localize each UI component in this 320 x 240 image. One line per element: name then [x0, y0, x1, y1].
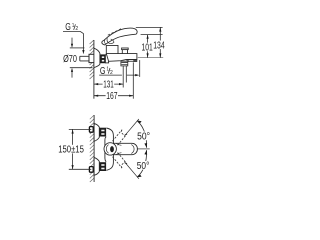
Ø70 lower arrow — [71, 71, 73, 77]
lower hex union nut (plan view, dark) — [100, 162, 107, 171]
lever handle (plan view, solid) — [109, 143, 138, 154]
dimension 150±15 (vertical line with arrows) — [72, 129, 74, 169]
G 1/2 label (spout outlet) — [100, 66, 113, 77]
lower pipe elbow behind wall — [89, 167, 93, 173]
hex union nut (side view, dark) — [100, 54, 105, 63]
G 1/2 leader with arrow to outlet projection line — [99, 74, 136, 76]
lever open position dashed line — [108, 28, 122, 35]
50° label (lower) — [136, 161, 150, 170]
cartridge housing block — [106, 45, 118, 53]
lever front cap curls — [104, 38, 114, 44]
svg-text:50°: 50° — [137, 132, 150, 143]
centerline baseline for height dimensions — [138, 57, 163, 59]
svg-text:101: 101 — [142, 43, 154, 54]
dimension 167 (horizontal) — [94, 95, 133, 97]
spout outlet projection line — [139, 60, 141, 77]
wall line (upper view), extended down as extension line for 131/167 — [93, 40, 95, 99]
upper escutcheon cone (plan view) — [94, 123, 99, 141]
wall hatching (lower view) — [90, 115, 94, 182]
dimension 134 (vertical) — [159, 27, 161, 57]
upper hex union nut (plan view, dark) — [100, 128, 107, 137]
svg-text:131: 131 — [103, 80, 114, 91]
Ø70 upper extension line — [70, 47, 85, 49]
diverter knob on body top — [122, 50, 127, 54]
shower hose nipple below body — [121, 61, 128, 66]
dimension 150±15 extension lines — [69, 128, 92, 130]
dimension 131 (horizontal) — [94, 83, 123, 85]
dome inner crescent — [106, 145, 108, 154]
134 top extension line — [136, 26, 163, 28]
extension line from spout tip for 167 — [132, 62, 134, 98]
aerator band under spout end — [127, 60, 137, 62]
50° arc (lower) — [137, 150, 146, 177]
faucet body (side view) — [106, 54, 137, 62]
50° leg line (lower) — [124, 162, 139, 179]
101 top extension line — [141, 34, 163, 36]
50° arc (upper) — [137, 121, 146, 148]
faucet body column (plan view) — [105, 128, 114, 170]
wall hatching (upper view) — [90, 40, 94, 79]
supply pipe behind wall — [80, 56, 89, 61]
svg-text:50°: 50° — [137, 161, 150, 172]
escutcheon cone (side view) — [94, 48, 100, 67]
upper pipe elbow behind wall — [89, 127, 93, 133]
svg-text:150±15: 150±15 — [58, 145, 84, 156]
svg-text:134: 134 — [153, 41, 165, 52]
dashed lever swung down 50° — [113, 153, 128, 169]
Ø70 upper arrow — [71, 38, 73, 45]
body flange ring — [105, 55, 108, 63]
wall line (lower view) — [93, 115, 95, 182]
svg-text:Ø70: Ø70 — [63, 54, 77, 65]
svg-text:167: 167 — [106, 91, 118, 102]
nipple thread extension lines downward — [122, 66, 124, 88]
lever waist contour lines — [116, 144, 134, 155]
cartridge dome circle — [104, 143, 116, 155]
lever axis extension line — [137, 148, 150, 150]
Ø70 lower extension line — [70, 67, 93, 69]
50° label (upper) — [137, 132, 151, 141]
G 1/2 label (wall connection) — [65, 22, 78, 33]
indicator cap (dark oval) — [110, 146, 114, 152]
G 1/2 leader line with arrow to pipe elbow — [63, 32, 83, 51]
lever handle (side view) — [102, 28, 137, 45]
50° leg line (upper) — [124, 119, 139, 136]
dashed lever swung up 50° — [113, 130, 128, 146]
dimension 101 (vertical) — [147, 35, 149, 58]
lower escutcheon cone (plan view) — [94, 157, 99, 175]
pipe elbow square behind wall — [89, 54, 95, 62]
